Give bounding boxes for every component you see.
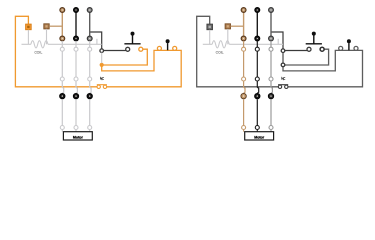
terminal L2a line-side	[74, 8, 79, 13]
wire L1a contactor gap upper	[61, 41, 63, 47]
contact PB1a right	[139, 47, 143, 51]
wire L1a overload jog	[62, 81, 63, 93]
wire L2a to motor terminal	[75, 99, 77, 125]
motor terminal T3b	[269, 126, 273, 130]
overload heater OL1a dot	[60, 93, 65, 98]
contact M3b lower circle	[269, 77, 273, 81]
contact M3a lower circle	[88, 77, 92, 81]
wire L1a between contacts	[61, 51, 63, 77]
wire W7a: coil rail	[22, 43, 102, 45]
pushbutton PB2a (stop, NC) actuator	[166, 39, 170, 50]
wire L1b to motor terminal	[243, 99, 245, 125]
terminal L1a load-side	[60, 36, 65, 41]
wire stubb: auxiliary rail stub	[277, 39, 279, 45]
wire W5b: junction ring to start button PB1b left contact	[285, 50, 307, 52]
wire L3b between contacts	[270, 51, 272, 77]
wire W10a: fuse F2a to phase L1	[49, 25, 62, 27]
motor terminal T2b	[255, 126, 259, 130]
fuse F2b (phase tap fuse)	[225, 24, 230, 29]
wire L3b contactor gap upper	[270, 41, 272, 47]
terminal L2a load-side	[74, 36, 79, 41]
terminal L2b load-side	[255, 36, 260, 41]
wire phase L3b upper segment	[270, 12, 272, 37]
coil COILb	[212, 41, 229, 55]
contact M1a upper circle	[60, 47, 64, 51]
pushbutton PB1a (start, NO) actuator	[124, 32, 140, 44]
node N2a: control junction ring	[100, 49, 104, 53]
overload heater OL1b dot	[241, 93, 246, 98]
motor Ma	[63, 132, 92, 140]
terminal L1a line-side	[60, 8, 65, 13]
fuse F1a (control fuse)	[26, 24, 32, 30]
overload heater OL3a dot	[87, 93, 92, 98]
contact M3a upper circle	[88, 47, 92, 51]
contact PB2a left	[157, 46, 161, 50]
wire W2a: NC contact to stop button PB2a bridge and seal node	[102, 50, 182, 86]
motor terminal T3a	[88, 126, 92, 130]
terminal L1b load-side	[241, 36, 246, 41]
contact M2a lower circle	[74, 77, 78, 81]
fuse F1b (control fuse)	[207, 24, 213, 30]
wire W9a: fuse F2a lower lead	[46, 29, 48, 44]
contact PB2a right	[173, 46, 177, 50]
wire T2a stub to motor	[75, 130, 77, 132]
wire L3a overload jog	[90, 81, 91, 93]
terminal L3a load-side	[87, 36, 92, 41]
wire phase L2a upper segment	[75, 12, 77, 37]
contact M3b upper circle	[269, 47, 273, 51]
contact PB2b left	[339, 46, 343, 50]
wire L3a between contacts	[89, 51, 91, 77]
wire W10b: fuse F2b to phase L1	[231, 25, 244, 27]
terminal L3b load-side	[269, 36, 274, 41]
contact PB1b left	[307, 47, 311, 51]
terminal L3a line-side	[87, 8, 92, 13]
wire W1a: fuse F1a top, up, left rail down, bottom run to NC contact	[15, 16, 97, 87]
wire stuba: auxiliary rail stub	[96, 39, 98, 45]
wire W2b: NC contact to stop button PB2b bridge and seal node	[283, 50, 363, 86]
wire phase L1b upper segment	[243, 12, 245, 37]
wire L2b to motor terminal	[256, 99, 258, 125]
contact M2a upper circle	[74, 47, 78, 51]
contact PB1b right	[320, 47, 324, 51]
wire T3b stub to motor	[270, 130, 272, 132]
svg-text:Motor: Motor	[254, 135, 265, 139]
wire L3a contactor gap upper	[89, 41, 91, 47]
wire phase L3a upper segment	[89, 12, 91, 37]
wire L2a overload jog	[76, 81, 77, 93]
wire L2a between contacts	[75, 51, 77, 77]
overload heater OL2b dot	[255, 93, 260, 98]
contact M1b lower circle	[242, 77, 246, 81]
wire L2b between contacts	[256, 51, 258, 77]
wire W6b: junction ring to seal node (vertical link)	[282, 53, 284, 64]
contact M2b lower circle	[255, 77, 259, 81]
wire T2b stub to motor	[256, 130, 258, 132]
motor Mb	[245, 132, 274, 140]
wire W8b: fuse F1b lower lead	[209, 30, 211, 45]
contact PB1a left	[126, 47, 130, 51]
node N2b: control junction ring	[281, 49, 285, 53]
wire L2a contactor gap upper	[75, 41, 77, 47]
wire L1b between contacts	[243, 51, 245, 77]
motor terminal T1b	[242, 126, 246, 130]
contact PB2b right	[354, 46, 358, 50]
wire phase L2b upper segment	[256, 12, 258, 37]
contact M2b upper circle	[255, 47, 259, 51]
wire L1a to motor terminal	[61, 99, 63, 125]
wire W4a: phase L3 tap to control junction	[90, 32, 102, 49]
wire phase L1a upper segment	[61, 12, 63, 37]
coil COILa	[31, 41, 48, 55]
svg-text:COIL: COIL	[34, 51, 42, 55]
wire W3b: seal node to start button PB1b right contact	[283, 49, 329, 65]
wire L2b contactor gap upper	[256, 41, 258, 47]
node N1b: seal junction	[281, 63, 285, 67]
wire T3a stub to motor	[89, 130, 91, 132]
wire L1b contactor gap upper	[243, 41, 245, 47]
wire T1a stub to motor	[61, 130, 63, 132]
fuse F2a (phase tap fuse)	[44, 24, 49, 29]
svg-text:Motor: Motor	[73, 135, 84, 139]
motor terminal T1a	[60, 126, 64, 130]
contact NCa (overload, normally closed)	[97, 77, 107, 88]
wire L2b overload jog	[257, 81, 258, 93]
wire L3a to motor terminal	[89, 99, 91, 125]
contact M1a lower circle	[60, 77, 64, 81]
overload heater OL3b dot	[268, 93, 273, 98]
wire T1b stub to motor	[243, 130, 245, 132]
terminal L3b line-side	[269, 8, 274, 13]
contact M1b upper circle	[242, 47, 246, 51]
wire L3b overload jog	[271, 81, 272, 93]
wire W8a: fuse F1a lower lead	[27, 30, 29, 45]
wire L1b overload jog	[244, 81, 245, 93]
svg-text:COIL: COIL	[216, 51, 224, 55]
terminal L1b line-side	[241, 8, 246, 13]
overload heater OL2a dot	[73, 93, 78, 98]
pushbutton PB1b (start, NO) actuator	[306, 32, 322, 44]
wire W7b: coil rail	[203, 43, 283, 45]
contact NCb (overload, normally closed)	[278, 77, 288, 88]
wire W5a: junction ring to start button PB1a left contact	[104, 50, 126, 52]
wire W1b: fuse F1b top, up, left rail down, bottom run to NC contact	[197, 16, 279, 87]
wire W3a: seal node to start button PB1a right contact	[102, 49, 148, 65]
motor terminal T2a	[74, 126, 78, 130]
wire L3b to motor terminal	[270, 99, 272, 125]
wire W4b: phase L3 tap to control junction	[271, 32, 283, 49]
terminal L2b line-side	[255, 8, 260, 13]
wire W6a: junction ring to seal node (vertical link)	[101, 53, 103, 64]
pushbutton PB2b (stop, NC) actuator	[347, 39, 351, 50]
node N1a: seal junction	[100, 63, 104, 67]
wire W9b: fuse F2b lower lead	[227, 29, 229, 44]
